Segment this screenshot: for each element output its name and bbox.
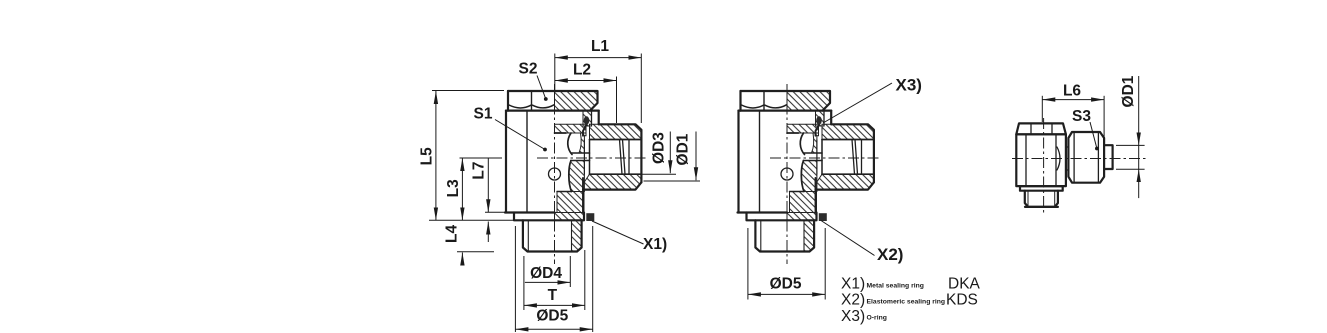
svg-text:ØD1: ØD1: [675, 133, 692, 165]
svg-text:L5: L5: [418, 147, 435, 165]
svg-text:Metal sealing ring: Metal sealing ring: [867, 283, 924, 290]
svg-text:ØD5: ØD5: [536, 308, 568, 325]
svg-text:X3): X3): [896, 76, 922, 95]
svg-text:ØD5: ØD5: [770, 276, 802, 293]
svg-text:O-ring: O-ring: [867, 315, 887, 322]
svg-text:X2): X2): [841, 292, 865, 309]
svg-text:ØD3: ØD3: [651, 132, 668, 164]
svg-text:S3: S3: [1072, 108, 1091, 125]
svg-text:ØD4: ØD4: [530, 265, 562, 282]
svg-text:T: T: [548, 287, 558, 304]
svg-text:L7: L7: [470, 162, 487, 180]
svg-text:S2: S2: [519, 60, 538, 77]
svg-text:X1): X1): [643, 236, 667, 253]
svg-text:Elastomeric sealing ring: Elastomeric sealing ring: [867, 299, 946, 306]
svg-text:ØD1: ØD1: [1120, 75, 1137, 107]
svg-text:DKA: DKA: [948, 276, 981, 293]
svg-text:KDS: KDS: [946, 292, 978, 309]
svg-text:L3: L3: [445, 179, 462, 197]
svg-text:L1: L1: [591, 38, 609, 55]
svg-text:S1: S1: [474, 106, 493, 123]
svg-text:L6: L6: [1063, 83, 1081, 100]
svg-text:X1): X1): [841, 276, 865, 293]
svg-text:X3): X3): [841, 308, 865, 325]
svg-text:X2): X2): [877, 245, 903, 264]
svg-text:L4: L4: [443, 224, 460, 242]
svg-text:L2: L2: [573, 62, 591, 79]
